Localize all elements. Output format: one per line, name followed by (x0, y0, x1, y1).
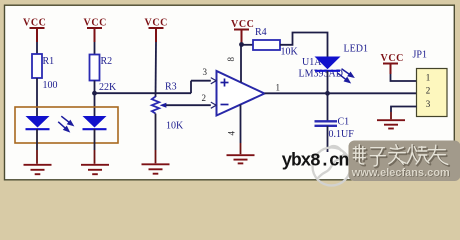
ground G2 (81, 165, 109, 174)
wire VCC3 to R3 (155, 42, 158, 97)
wire D1 to ground (36, 129, 38, 150)
emission arrows (58, 116, 73, 131)
pin 8 wire (240, 45, 242, 83)
ground G4 (227, 155, 255, 163)
pin 2 input chevron (211, 102, 216, 108)
junction VCC4/R4 (239, 42, 244, 47)
svg-text:8: 8 (226, 57, 236, 62)
LED1 (315, 57, 341, 71)
svg-text:10K: 10K (281, 47, 299, 58)
svg-text:3: 3 (426, 99, 431, 109)
svg-text:R3: R3 (165, 82, 177, 93)
LED1 emission arrows (338, 69, 353, 83)
watermark elecfans panel (349, 141, 460, 182)
wire wiper to op-amp pin 2 (166, 104, 216, 106)
svg-text:100: 100 (43, 80, 58, 91)
ground G1 (24, 165, 52, 174)
capacitor C1 (315, 121, 338, 126)
wire to R4 (242, 44, 254, 46)
VCC power port 3 (149, 28, 164, 42)
wire VCC2 to R2 (94, 42, 96, 55)
svg-text:VCC: VCC (145, 18, 168, 29)
svg-text:VCC: VCC (381, 53, 404, 64)
plus input mark (221, 79, 229, 87)
wire JP1 pin3 to ground (391, 107, 417, 113)
junction node A (92, 91, 97, 96)
svg-text:LED1: LED1 (344, 44, 368, 55)
pin 4 wire (240, 105, 242, 144)
svg-text:2: 2 (202, 93, 207, 103)
svg-text:R4: R4 (255, 27, 267, 38)
wire C1 down (327, 126, 329, 152)
junction output node (325, 91, 330, 96)
wiper arrow (160, 103, 167, 108)
resistor R2 (90, 55, 100, 81)
wire LED1 to output node (327, 71, 329, 94)
connector JP1 (417, 69, 448, 117)
wire to op-amp pin 3 (191, 80, 216, 82)
sheet background (0, 0, 460, 189)
svg-text:2: 2 (426, 85, 431, 95)
svg-text:VCC: VCC (23, 18, 46, 29)
watermark logo circle (313, 146, 351, 185)
svg-text:ybx8.cn: ybx8.cn (282, 152, 349, 172)
svg-text:10K: 10K (166, 121, 184, 132)
resistor R4 (253, 40, 280, 50)
VCC power port 5 (383, 64, 398, 75)
op-amp U1A (217, 71, 265, 116)
svg-text:VCC: VCC (231, 19, 254, 30)
svg-text:R1: R1 (43, 56, 55, 67)
pin 3 input chevron (211, 78, 216, 84)
svg-text:4: 4 (227, 131, 237, 136)
LED D-left (26, 116, 50, 129)
wire VCC1 to R1 (36, 42, 38, 54)
wire elbow up to pin 3 (190, 81, 192, 94)
ground G5 (377, 120, 405, 128)
wire node to C1 (327, 93, 329, 121)
VCC power port 4 (234, 30, 249, 45)
wire R4 to LED1 anode (280, 33, 328, 58)
svg-text:0.1UF: 0.1UF (329, 129, 355, 140)
svg-text:C1: C1 (338, 117, 350, 128)
svg-text:VCC: VCC (84, 18, 107, 29)
wire R2 to D2 and node A (94, 81, 96, 117)
potentiometer R3 zigzag (152, 97, 159, 114)
wire R1 to D1 (36, 78, 38, 116)
VCC power port 1 (30, 28, 45, 42)
minus input mark (221, 104, 229, 106)
opto-interrupter box (15, 107, 118, 143)
wire node A horizontal (95, 92, 192, 94)
svg-text:22K: 22K (99, 82, 117, 93)
wire VCC5 to JP1 pin1 (391, 74, 417, 81)
svg-text:3: 3 (203, 67, 208, 77)
ground G3 (142, 164, 170, 173)
wire R3 to ground (155, 114, 157, 151)
svg-text:1: 1 (276, 83, 281, 93)
svg-text:www.elecfans.com: www.elecfans.com (351, 167, 450, 179)
VCC power port 2 (87, 28, 102, 42)
resistor R1 (32, 54, 42, 78)
photodiode D-right (83, 116, 107, 129)
wire D2 to ground (94, 129, 96, 150)
svg-text:JP1: JP1 (413, 50, 427, 61)
output wire pin 1 (265, 92, 417, 94)
svg-text:R2: R2 (101, 56, 113, 67)
svg-text:1: 1 (426, 72, 431, 82)
